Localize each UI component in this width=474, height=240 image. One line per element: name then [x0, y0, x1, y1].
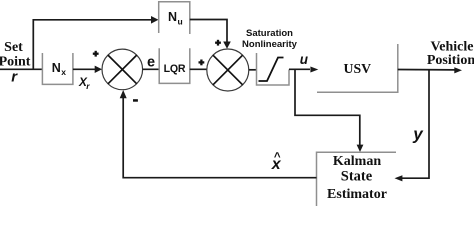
- wire LQR to summer2: [190, 68, 208, 70]
- block Nu: [159, 2, 190, 34]
- svg-text:Set: Set: [4, 40, 23, 55]
- block LQR: [159, 48, 190, 83]
- svg-text:Nonlinearity: Nonlinearity: [242, 39, 298, 50]
- wire branch up to Nu: [33, 20, 151, 70]
- block Nx: [42, 53, 73, 84]
- summing junction summer1: [102, 49, 143, 90]
- wire Nu to summer2: [190, 20, 227, 43]
- block saturation: [257, 53, 290, 85]
- svg-text:N: N: [168, 10, 177, 24]
- label Set Point: [0, 40, 31, 70]
- sign plus (summer2 left): [199, 61, 205, 63]
- arrow into Nu: [151, 16, 159, 24]
- wire y branch: [402, 70, 429, 179]
- arrow into kalman right: [395, 175, 403, 181]
- svg-text:Estimator: Estimator: [327, 187, 387, 202]
- svg-text:Kalman: Kalman: [333, 154, 381, 169]
- wire u (saturation to USV): [289, 68, 310, 70]
- svg-text:x: x: [61, 67, 66, 77]
- sign minus (summer1 bottom): [133, 99, 138, 102]
- arrow vehicle position: [454, 67, 462, 73]
- wire r input: [0, 68, 43, 70]
- wire USV output: [398, 69, 456, 71]
- svg-text:e: e: [147, 54, 155, 70]
- svg-text:^: ^: [274, 152, 281, 164]
- wire Nx to summer1: [73, 68, 96, 70]
- sign plus (summer2 top): [215, 42, 221, 44]
- label saturation nonlinearity: [242, 28, 298, 50]
- node Xr label: [78, 75, 90, 91]
- label Vehicle Position: [427, 40, 474, 69]
- wire xhat feedback: [123, 98, 316, 178]
- svg-text:State: State: [341, 169, 373, 185]
- svg-text:y: y: [412, 124, 424, 143]
- wire summer2 to saturation: [249, 69, 257, 71]
- arrow into USV: [310, 67, 318, 73]
- arrow into summer1 bottom: [120, 90, 127, 98]
- svg-text:Saturation: Saturation: [246, 28, 293, 39]
- wire e (summer1 to LQR): [143, 68, 159, 70]
- node xhat label: [271, 152, 282, 174]
- summing junction summer2: [207, 49, 249, 91]
- svg-text:u: u: [300, 52, 309, 67]
- svg-text:Position: Position: [427, 53, 474, 68]
- svg-text:u: u: [178, 16, 183, 26]
- block kalman state estimator: [317, 152, 397, 206]
- svg-text:Point: Point: [0, 55, 31, 70]
- svg-text:N: N: [52, 61, 61, 75]
- svg-text:LQR: LQR: [164, 63, 186, 75]
- block USV: [317, 44, 398, 92]
- arrow into summer1: [95, 66, 102, 73]
- sign plus (summer1 left): [93, 53, 99, 55]
- arrow into summer2 top: [223, 42, 231, 49]
- svg-text:USV: USV: [344, 61, 372, 76]
- wire u branch to kalman: [295, 69, 360, 145]
- arrow into kalman top: [357, 145, 364, 152]
